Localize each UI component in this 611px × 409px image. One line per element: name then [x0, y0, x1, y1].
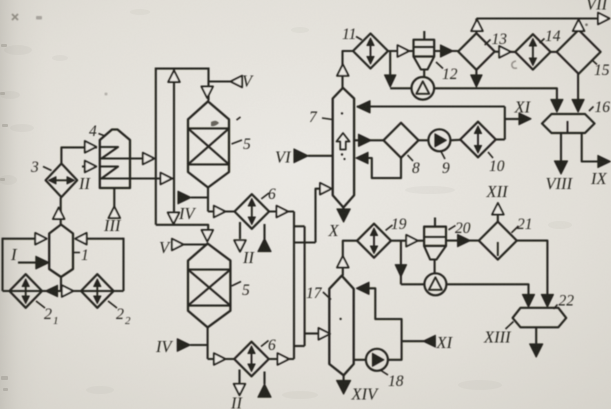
stream X bottoms arrow [337, 209, 350, 222]
separator 15 [557, 30, 601, 74]
stream XIII label with leader [483, 322, 514, 347]
label 5 lower with leader [232, 282, 250, 300]
drain arrow to stream III [109, 207, 121, 219]
label 13 with leader [485, 31, 508, 48]
wire left recycle top run [3, 238, 48, 240]
stream X label [328, 221, 340, 240]
stream IX outlet from 16 [582, 133, 611, 168]
separator 21 [479, 222, 517, 260]
label 12 with leader [436, 62, 458, 83]
wire 15 overhead riser [578, 19, 580, 30]
stream XI entry stub (lower) [402, 335, 436, 347]
stream VII label [586, 0, 609, 14]
vessel 22 bottom outlet arrow [530, 327, 543, 357]
stream IV label (lower) [155, 337, 173, 356]
wire upper reactor downcomer [207, 68, 209, 101]
wire column7 bottoms stem [342, 208, 344, 212]
label 22 with leader [554, 293, 575, 310]
vessel 1 (mixer/settler) [49, 225, 73, 278]
cooling water inlet stub (lower) [258, 372, 271, 398]
stream V inlet stub (upper) [209, 76, 243, 88]
label 6 upper with leader [261, 186, 276, 203]
label 2_2 with leader [108, 301, 131, 327]
flow arrow up column17 overhead [337, 256, 349, 268]
wire pump18 discharge loop [360, 288, 402, 360]
wire separator8 to pump 9 [419, 139, 429, 141]
flow arrow up on vessel1 overhead [53, 208, 65, 220]
label 18 with leader [381, 371, 404, 391]
pump 9 [428, 129, 450, 151]
flow arrow 15 bottoms into 16 [572, 100, 584, 113]
flow arrow column7 draw [359, 134, 372, 146]
flow arrow after cooler 6 lower [278, 353, 290, 365]
reboiler return arrow into column17 [357, 282, 370, 294]
reactor 5 (lower) with catalyst bed [188, 244, 230, 328]
wire pump20 discharge run to vessel 22 [446, 284, 528, 295]
label 5 upper with leader [232, 117, 252, 153]
wire riser x156 (coil1 to headers) [155, 68, 157, 225]
wire exchanger11 to separator 12 [388, 50, 414, 52]
separator 20 body [424, 218, 446, 274]
wire manifold bottom stub y346 [294, 345, 305, 347]
stream XI label (lower) [436, 333, 454, 352]
scan speck top-left [12, 14, 42, 20]
cooler 6 (upper) [235, 194, 270, 229]
label 15 with leader [592, 60, 610, 79]
flow arrow down on riser x174 to lower header [168, 213, 180, 225]
pump below separator 12 [412, 77, 435, 100]
label 7 with leader [309, 109, 332, 126]
cooler 6 (lower) [234, 342, 269, 377]
flow arrow right on bottom header [62, 285, 74, 297]
column 17 [329, 276, 353, 376]
wire 19 to separator 20 [391, 240, 424, 242]
heater 4 coil 2 [100, 167, 131, 179]
stream VIII outlet from 16 [555, 133, 568, 174]
flow arrow down reflux [395, 265, 406, 277]
separating vessel 16 [542, 114, 595, 133]
wire pumparound top run [357, 105, 505, 107]
stream II label (upper cooler) [242, 248, 255, 267]
flow arrow up from 15 [573, 20, 585, 32]
heater 4 coil 1 [100, 147, 131, 159]
stream XIV bottoms arrow [337, 381, 351, 395]
stream VII arrow [598, 13, 610, 25]
reactor 5 (upper) with catalyst bed [188, 101, 229, 187]
flow arrow into separator 12 [398, 45, 410, 57]
wire 13 bottoms drop [475, 70, 477, 86]
flow arrow separator12 outlet [441, 45, 454, 57]
label 14 with leader [540, 28, 561, 45]
stream V label (lower) [159, 238, 171, 257]
flow arrow condensate into 16 [551, 100, 563, 113]
heat exchanger 10 [460, 122, 496, 158]
wire manifold cross run y242 [294, 241, 316, 243]
flow arrow into vessel1 left shoulder [35, 233, 47, 245]
wire left recycle riser [1, 238, 3, 291]
wire 21 to vessel 22 [517, 241, 548, 295]
flow arrow on coil1 outlet [143, 153, 155, 165]
wire reactor5u bottom stem [207, 188, 209, 212]
flow arrow left on bottom header [46, 285, 58, 296]
label 21 with leader [511, 216, 532, 233]
wire bottom recycle header [3, 290, 124, 292]
stream I feed arrow into vessel 1 [18, 256, 49, 268]
wire exchanger13 overhead riser [475, 19, 477, 34]
pumparound return arrow into column7 [357, 101, 370, 113]
wire 21 vent riser to XII [497, 214, 499, 222]
wire cooler6l outlet run [269, 358, 294, 360]
stream II inlet stub to heater4 coil2 [82, 161, 96, 173]
flow arrow into vessel1 right shoulder [75, 233, 87, 245]
flow arrow down bypass [385, 75, 396, 87]
stream V label (upper) [242, 72, 254, 91]
wire branch to column 17 feed y333 [305, 332, 320, 334]
label 1 with leader [73, 247, 88, 264]
wire column17 overhead stem [343, 241, 357, 276]
wire column7 overhead stem [343, 51, 354, 88]
stream I label [10, 245, 18, 264]
flow arrow up column7 overhead [337, 64, 349, 76]
flow arrow separator20 outlet [458, 235, 471, 247]
wire separator12 vapor to exchanger 13 [434, 50, 458, 52]
heat exchanger 2_1 [9, 274, 42, 308]
flow arrow up from 13 [471, 20, 483, 32]
stream IV label (upper) [178, 204, 196, 223]
heater 4 body [100, 130, 130, 189]
wire 15 bottoms drop to vessel 16 [577, 74, 579, 111]
separator 8 [384, 123, 419, 158]
flow arrow pump20 stream into 22 [523, 295, 535, 308]
label 6 lower with leader [261, 337, 276, 354]
wire pump12 discharge run to vessel 16 [434, 88, 557, 111]
stream IV injection arrow (upper) [178, 191, 208, 203]
label 4 with leader [89, 123, 105, 140]
label 19 with leader [386, 216, 407, 233]
flow arrow on coil2 outlet [161, 173, 173, 185]
internal vapor arrow in column 7 [336, 112, 349, 160]
heater 4 condensate drain stem [113, 188, 115, 208]
label 2_1 with leader [36, 301, 59, 327]
stream XI offtake stub (upper) [505, 113, 531, 125]
heat exchanger 11 [353, 34, 388, 69]
wire column17 reboiler draw [354, 359, 366, 361]
wire pump20 suction spur [401, 283, 425, 285]
flow arrow into column 7 feed [320, 183, 332, 195]
scan smudge near reactor top [105, 23, 588, 126]
stream V inlet stub (lower) [172, 239, 208, 251]
label 17 with leader [306, 285, 331, 302]
wire vessel1 top stem up to exchanger 3 [60, 197, 62, 225]
wire right recycle riser [122, 238, 124, 291]
cooling water inlet stub (upper) [258, 224, 271, 252]
column 7 [333, 88, 354, 208]
wire pump9 to exchanger 10 [450, 139, 460, 142]
heat exchanger 3 (cooler) [46, 164, 78, 198]
stream II label (lower cooler) [230, 394, 243, 409]
wire column17 bottoms stem [343, 375, 345, 381]
wire riser x315 to column 7 [316, 189, 331, 243]
wire 13 to exchanger 14 [495, 51, 516, 53]
cooling water outlet stub to II (upper) [234, 222, 246, 252]
pump 18 [366, 349, 388, 371]
label 10 with leader [488, 152, 505, 175]
heat exchanger 14 [515, 34, 550, 69]
wire manifold drop x294 [293, 212, 295, 360]
label 3 with leader [30, 159, 52, 176]
wire exchanger3 to heater4 coil1 [61, 147, 97, 163]
separator 13 [458, 33, 495, 70]
pump below separator 20 [424, 273, 446, 295]
wire top product header to VII [476, 17, 600, 19]
wire coil2 outlet run [131, 177, 175, 179]
wire bypass drop x390 [389, 51, 391, 86]
stream VIII label [546, 174, 574, 193]
heat exchanger 19 [357, 224, 391, 258]
stream XII arrow [492, 203, 504, 215]
stream XII label [486, 182, 510, 201]
wire manifold stub y226 [294, 225, 305, 227]
flow arrow up on riser x174 [168, 71, 180, 83]
wire column7 draw to separator 8 [354, 139, 383, 141]
label 16 with leader [589, 99, 610, 116]
wire reactor5u effluent run [208, 210, 235, 212]
separating vessel 22 [513, 308, 567, 328]
wire coil1 outlet run [131, 157, 156, 159]
flow arrow into heater4 coil1 [85, 141, 97, 153]
flow arrow into reactor 5 lower [202, 230, 214, 242]
wire reflux drop x401 [400, 241, 402, 285]
wire reactor5l effluent run [208, 358, 235, 360]
flow arrow into reactor 5 upper [201, 87, 213, 99]
wire pump12 suction spur [390, 87, 411, 89]
stream VI label [275, 148, 292, 167]
heat exchanger 2_2 [81, 274, 114, 308]
wire right recycle top run [75, 238, 124, 240]
wire top feed header [156, 68, 209, 70]
label 11 with leader [342, 26, 362, 43]
wire 14 to separator 15 [551, 51, 557, 53]
wire lower feed header [156, 225, 208, 234]
stream XI label (upper) [514, 98, 532, 117]
wire riser x174 (coil2 split) [173, 69, 175, 224]
label 20 with leader [449, 220, 471, 237]
label 8 with leader [408, 155, 421, 177]
flow arrow 13 bottoms [471, 75, 482, 87]
flow arrow 21 outlet into 22 [541, 295, 553, 308]
stream IX label [590, 169, 607, 188]
wire cooler6u outlet run [269, 210, 294, 212]
flow arrow into separator 20 [406, 235, 418, 247]
wire exchanger10 up to pumparound [496, 107, 505, 140]
wire reactor5l bottom stem [207, 327, 209, 359]
stream VI feed arrow into column 7 [294, 149, 333, 163]
label 9 with leader [441, 152, 450, 178]
flow arrow to cooler 6 lower [214, 353, 226, 365]
flow arrow to cooler 6 upper [214, 206, 226, 218]
flow arrow after cooler 6 upper [277, 206, 289, 218]
flow arrow into column 17 feed [319, 328, 331, 340]
stream III label [103, 216, 122, 235]
stream XIV label [351, 385, 380, 404]
wire vessel1 bottom stem [60, 277, 62, 291]
stream II label at heater 4 [78, 174, 91, 193]
stream IV injection arrow (lower) [177, 339, 207, 351]
wire manifold drop x305 [304, 226, 306, 346]
return arrow from separator8 into column7 [356, 152, 368, 163]
wire separator20 vapor to exchanger 21 [446, 240, 479, 242]
flow arrow into 14 [499, 46, 511, 58]
separator 12 body [414, 31, 435, 77]
wire separator8 bottoms loop [367, 158, 401, 178]
cooling water outlet stub to II (lower) [234, 370, 246, 396]
